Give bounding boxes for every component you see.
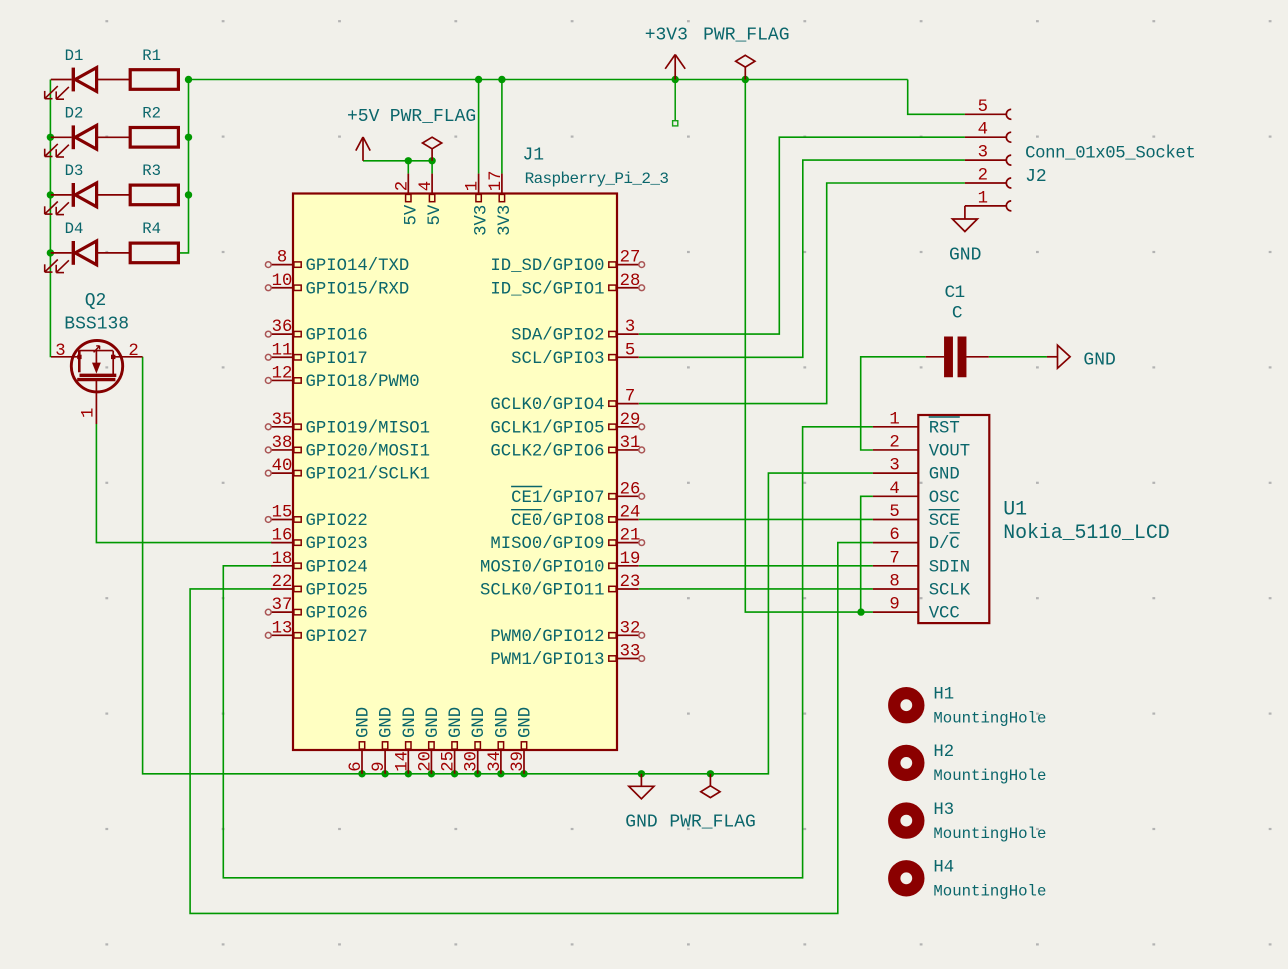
svg-text:3: 3 (889, 457, 899, 476)
J1 pin 28 ID_SC/GPIO1 (490, 272, 644, 300)
J1 pin 15 GPIO22 (265, 503, 367, 531)
junction U1 VCC (857, 608, 864, 615)
svg-text:25: 25 (440, 751, 459, 772)
svg-text:D2: D2 (65, 105, 84, 123)
svg-text:MountingHole: MountingHole (933, 710, 1046, 728)
wire +3V3 dangling stub (673, 80, 678, 126)
J1 pin 9 GND bottom (370, 707, 397, 774)
svg-text:5V: 5V (402, 204, 421, 225)
power symbol +5V (347, 107, 380, 161)
svg-text:8: 8 (889, 572, 899, 591)
mounting hole H2 (894, 743, 1046, 785)
J1 pin 27 ID_SD/GPIO0 (490, 249, 644, 277)
LED D2 (45, 105, 131, 157)
junction GND symbol bottom (638, 770, 645, 777)
svg-text:10: 10 (272, 272, 293, 291)
LED D1 (45, 47, 131, 99)
J2 pin 3 (965, 144, 1012, 166)
svg-text:GND: GND (625, 813, 657, 833)
svg-text:Conn_01x05_Socket: Conn_01x05_Socket (1025, 144, 1195, 163)
svg-text:D3: D3 (65, 162, 84, 180)
svg-text:CE1/GPIO7: CE1/GPIO7 (511, 489, 604, 508)
J1 pin 38 GPIO20/MOSI1 (265, 434, 430, 462)
svg-text:ID_SC/GPIO1: ID_SC/GPIO1 (490, 280, 604, 299)
mounting hole H4 (894, 859, 1046, 901)
junction 3V3 pin 17 (498, 76, 505, 83)
LED D3 (45, 162, 131, 214)
svg-text:SCLK: SCLK (929, 581, 971, 600)
wire +3V3 riser to U1 VCC (745, 80, 873, 613)
J1 pin 2 5V top (393, 174, 421, 226)
svg-text:2: 2 (889, 433, 899, 452)
svg-text:+3V3: +3V3 (645, 26, 688, 46)
U1 pin 1 RST (873, 410, 960, 438)
resistor R2 (130, 105, 178, 148)
J1 pin 24 CE0/GPIO8 (511, 503, 640, 531)
svg-text:Q2: Q2 (85, 291, 107, 311)
svg-text:33: 33 (620, 642, 641, 661)
J1 pin 14 GND bottom (393, 707, 420, 774)
J2 pin 4 (965, 121, 1012, 143)
junction GND pin rail x362 (358, 770, 365, 777)
svg-text:GPIO22: GPIO22 (306, 512, 368, 531)
svg-text:ID_SD/GPIO0: ID_SD/GPIO0 (490, 257, 604, 276)
svg-text:26: 26 (620, 480, 641, 499)
mounting hole H1 (894, 685, 1046, 727)
svg-text:GPIO27: GPIO27 (306, 628, 368, 647)
svg-text:GPIO18/PWM0: GPIO18/PWM0 (306, 373, 420, 392)
svg-text:38: 38 (272, 434, 293, 453)
wire SCL/GPIO3 to J2 pin 3 (639, 160, 965, 357)
svg-text:1: 1 (978, 189, 988, 208)
J1 pin 7 GCLK0/GPIO4 (490, 388, 638, 416)
svg-text:Nokia_5110_LCD: Nokia_5110_LCD (1003, 521, 1169, 544)
capacitor C1 (926, 283, 989, 377)
junction GND pin rail x477 (474, 770, 481, 777)
J1 pin 8 GPIO14/TXD (265, 249, 409, 277)
wire 3V3 pin 1 (478, 80, 480, 174)
svg-text:RST: RST (929, 419, 960, 438)
wire +3V3 top rail (189, 79, 908, 81)
svg-text:BSS138: BSS138 (64, 314, 129, 334)
svg-text:GPIO25: GPIO25 (306, 581, 368, 600)
svg-text:24: 24 (620, 503, 641, 522)
svg-text:MISO0/GPIO9: MISO0/GPIO9 (490, 535, 604, 554)
svg-text:GPIO19/MISO1: GPIO19/MISO1 (306, 419, 430, 438)
svg-text:5: 5 (625, 341, 635, 360)
svg-text:GPIO20/MOSI1: GPIO20/MOSI1 (306, 442, 430, 461)
svg-text:22: 22 (272, 573, 293, 592)
junction R2 output (185, 134, 192, 141)
junction R3 output (185, 191, 192, 198)
svg-text:34: 34 (486, 751, 505, 772)
U1 pin 4 OSC (873, 480, 960, 508)
junction +5V pin 2 (405, 157, 412, 164)
svg-text:30: 30 (463, 751, 482, 772)
svg-text:SDIN: SDIN (929, 558, 970, 577)
J1 pin 3 SDA/GPIO2 (511, 318, 639, 346)
svg-text:21: 21 (620, 527, 641, 546)
svg-text:28: 28 (620, 272, 641, 291)
global label GND at C1 (1047, 345, 1116, 370)
wire C1 to GND label (989, 356, 1047, 358)
svg-text:4: 4 (978, 121, 988, 140)
wire GPIO23 to Q2 source (96, 424, 272, 543)
svg-text:14: 14 (393, 751, 412, 772)
svg-text:H2: H2 (933, 743, 954, 762)
junction GND pin rail x408 (405, 770, 412, 777)
svg-text:29: 29 (620, 411, 641, 430)
J1 pin 22 GPIO25 (271, 573, 368, 601)
J1 pin 40 GPIO21/SCLK1 (265, 457, 430, 485)
svg-text:R4: R4 (142, 220, 161, 238)
svg-text:R1: R1 (142, 47, 161, 65)
wire C1 to U1 VOUT (861, 357, 926, 450)
svg-text:MountingHole: MountingHole (933, 767, 1046, 785)
resistor R3 (130, 162, 178, 205)
U1 pin 3 GND (873, 457, 960, 485)
svg-text:GND: GND (929, 466, 960, 485)
U1 pin 6 D/C (873, 526, 960, 554)
J1 pin 34 GND bottom (486, 707, 513, 774)
wire 3V3 pin 17 (501, 80, 503, 174)
svg-text:PWR_FLAG: PWR_FLAG (390, 107, 476, 127)
svg-text:C: C (952, 304, 963, 324)
wire U1 OSC to VCC (861, 496, 873, 612)
power symbol +3V3 (645, 26, 688, 80)
junction GND pin rail x454 (451, 770, 458, 777)
svg-text:13: 13 (272, 619, 293, 638)
transistor Q2 BSS138 (51, 291, 143, 424)
J1 pin 10 GPIO15/RXD (265, 272, 409, 300)
J1 pin 36 GPIO16 (265, 318, 367, 346)
svg-text:4: 4 (889, 480, 899, 499)
mounting hole H3 (894, 801, 1046, 843)
J1 pin 1 3V3 top (464, 174, 492, 236)
svg-text:J2: J2 (1025, 167, 1047, 187)
svg-text:H3: H3 (933, 801, 954, 820)
svg-text:Raspberry_Pi_2_3: Raspberry_Pi_2_3 (525, 170, 669, 188)
J1 pin 6 GND bottom (347, 707, 374, 774)
svg-text:GND: GND (1083, 350, 1115, 370)
svg-text:GPIO16: GPIO16 (306, 327, 368, 346)
svg-text:31: 31 (620, 434, 641, 453)
junction R1 output (185, 76, 192, 83)
J1 pin 29 GCLK1/GPIO5 (490, 411, 644, 439)
U1 pin 9 VCC (873, 596, 960, 624)
svg-text:GND: GND (447, 707, 466, 738)
wire GND rail (Q2 drain riser, bottom rail, riser to U1 GND) (143, 357, 873, 774)
junction PWR_FLAG top (742, 76, 749, 83)
junction +3V3 symbol (672, 76, 679, 83)
J1 pin 37 GPIO26 (265, 596, 367, 624)
svg-text:GND: GND (355, 707, 374, 738)
svg-text:6: 6 (347, 761, 366, 771)
svg-text:PWM0/GPIO12: PWM0/GPIO12 (490, 628, 604, 647)
svg-text:2: 2 (978, 167, 988, 186)
svg-text:GCLK1/GPIO5: GCLK1/GPIO5 (490, 419, 604, 438)
IC J1 Raspberry_Pi_2_3 body (293, 145, 668, 750)
svg-text:GPIO14/TXD: GPIO14/TXD (306, 257, 410, 276)
wire top rail to J2 pin 5 (908, 80, 965, 115)
wire CE0/GPIO8 to U1 SCE (639, 518, 873, 520)
svg-text:D/C: D/C (929, 535, 960, 554)
svg-text:1: 1 (80, 408, 99, 418)
wire GPIO24 to U1 RST (223, 427, 873, 878)
J1 pin 35 GPIO19/MISO1 (265, 411, 430, 439)
J1 pin 33 PWM1/GPIO13 (490, 642, 644, 670)
IC U1 Nokia_5110_LCD body (918, 415, 1169, 623)
svg-text:7: 7 (889, 549, 899, 568)
junction GND pin rail x385 (381, 770, 388, 777)
svg-text:VCC: VCC (929, 605, 960, 624)
svg-text:1: 1 (889, 410, 899, 429)
svg-text:GPIO26: GPIO26 (306, 605, 368, 624)
svg-text:CE0/GPIO8: CE0/GPIO8 (511, 512, 604, 531)
wire resistor output chain (178, 80, 188, 253)
J1 pin 16 GPIO23 (271, 527, 368, 555)
junction GND pin rail x524 (520, 770, 527, 777)
svg-text:19: 19 (620, 550, 641, 569)
ground symbol J2 pin 1 (949, 206, 981, 266)
svg-text:PWR_FLAG: PWR_FLAG (703, 26, 789, 46)
J1 pin 13 GPIO27 (265, 619, 367, 647)
svg-text:39: 39 (509, 751, 528, 772)
junction GND pin rail x431 (428, 770, 435, 777)
svg-text:18: 18 (272, 550, 293, 569)
svg-text:GND: GND (378, 707, 397, 738)
svg-text:GCLK0/GPIO4: GCLK0/GPIO4 (490, 396, 604, 415)
svg-text:6: 6 (889, 526, 899, 545)
J1 pin 19 MOSI0/GPIO10 (480, 550, 640, 578)
J2 pin 1 (965, 189, 1012, 211)
svg-text:2: 2 (393, 181, 412, 191)
svg-text:35: 35 (272, 411, 293, 430)
J1 pin 25 GND bottom (440, 707, 467, 774)
svg-text:H4: H4 (933, 859, 954, 878)
LED D4 (45, 220, 131, 272)
svg-text:32: 32 (620, 619, 641, 638)
svg-text:SCE: SCE (929, 512, 960, 531)
power flag PWR_FLAG top-left (390, 107, 476, 161)
svg-text:GPIO21/SCLK1: GPIO21/SCLK1 (306, 466, 430, 485)
svg-text:36: 36 (272, 318, 293, 337)
power flag PWR_FLAG bottom (669, 774, 755, 833)
U1 pin 5 SCE (873, 503, 960, 531)
svg-text:J1: J1 (523, 145, 545, 165)
svg-text:GND: GND (401, 707, 420, 738)
svg-text:8: 8 (277, 249, 287, 268)
J1 pin 18 GPIO24 (271, 550, 368, 578)
svg-text:SDA/GPIO2: SDA/GPIO2 (511, 327, 604, 346)
J1 pin 12 GPIO18/PWM0 (265, 364, 419, 392)
J1 pin 30 GND bottom (463, 707, 490, 774)
svg-text:5V: 5V (426, 204, 445, 225)
svg-text:MountingHole: MountingHole (933, 883, 1046, 901)
svg-text:5: 5 (889, 503, 899, 522)
J1 pin 17 3V3 top (487, 170, 515, 235)
J2 pin 5 (965, 98, 1012, 120)
svg-text:9: 9 (370, 761, 389, 771)
svg-text:+5V: +5V (347, 107, 380, 127)
svg-text:2: 2 (128, 342, 138, 361)
svg-text:3: 3 (978, 144, 988, 163)
J1 pin 11 GPIO17 (265, 341, 367, 369)
svg-text:PWM1/GPIO13: PWM1/GPIO13 (490, 651, 604, 670)
wire SDA/GPIO2 to J2 pin 4 (639, 137, 965, 334)
junction D2 cathode (47, 134, 54, 141)
ground symbol bottom rail (625, 774, 657, 833)
svg-text:40: 40 (272, 457, 293, 476)
J1 pin 20 GND bottom (416, 707, 443, 774)
svg-text:GCLK2/GPIO6: GCLK2/GPIO6 (490, 442, 604, 461)
U1 pin 8 SCLK (873, 572, 971, 600)
svg-text:1: 1 (464, 181, 483, 191)
svg-text:5: 5 (978, 98, 988, 117)
svg-text:GPIO17: GPIO17 (306, 350, 368, 369)
svg-text:27: 27 (620, 249, 641, 268)
svg-text:H1: H1 (933, 685, 954, 704)
junction GND pin rail x500 (497, 770, 504, 777)
svg-text:GND: GND (493, 707, 512, 738)
J1 pin 4 5V top (417, 174, 445, 226)
resistor R4 (130, 220, 178, 263)
wire LED cathode chain (49, 80, 51, 358)
wire MOSI0/GPIO10 to U1 SDIN (639, 565, 873, 567)
J1 pin 32 PWM0/GPIO12 (490, 619, 644, 647)
svg-text:3V3: 3V3 (473, 205, 492, 236)
svg-text:3V3: 3V3 (496, 205, 515, 236)
J1 pin 39 GND bottom (509, 707, 536, 774)
J2 pin 2 (965, 167, 1012, 189)
junction 3V3 pin 1 (475, 76, 482, 83)
svg-text:20: 20 (416, 751, 435, 772)
svg-text:3: 3 (55, 342, 65, 361)
svg-text:4: 4 (417, 181, 436, 191)
resistor R1 (130, 47, 178, 89)
svg-text:15: 15 (272, 503, 293, 522)
junction D4 cathode (47, 249, 54, 256)
J1 pin 31 GCLK2/GPIO6 (490, 434, 644, 462)
wire SCLK0/GPIO11 to U1 SCLK (639, 588, 873, 590)
svg-text:VOUT: VOUT (929, 442, 970, 461)
svg-text:GND: GND (424, 707, 443, 738)
junction PWR_FLAG bottom (707, 770, 714, 777)
junction D3 cathode (47, 191, 54, 198)
svg-text:D4: D4 (65, 220, 84, 238)
wire +5V net (363, 161, 432, 174)
svg-text:SCL/GPIO3: SCL/GPIO3 (511, 350, 604, 369)
wire GCLK0/GPIO4 to J2 pin 2 (639, 183, 965, 404)
svg-text:GND: GND (949, 245, 981, 265)
svg-text:MOSI0/GPIO10: MOSI0/GPIO10 (480, 558, 604, 577)
junction +5V pin 4 (428, 157, 435, 164)
wire GPIO25 to U1 D/C (190, 543, 873, 914)
svg-text:9: 9 (889, 596, 899, 615)
power flag PWR_FLAG top-middle (703, 26, 789, 80)
svg-text:GND: GND (470, 707, 489, 738)
svg-text:16: 16 (272, 527, 293, 546)
svg-text:GPIO15/RXD: GPIO15/RXD (306, 280, 410, 299)
svg-text:C1: C1 (945, 283, 965, 303)
svg-text:R2: R2 (142, 105, 161, 123)
svg-text:R3: R3 (142, 162, 161, 180)
svg-text:11: 11 (272, 341, 293, 360)
svg-text:GND: GND (517, 707, 536, 738)
svg-text:12: 12 (272, 364, 293, 383)
U1 pin 7 SDIN (873, 549, 970, 577)
svg-text:3: 3 (625, 318, 635, 337)
svg-text:GPIO23: GPIO23 (306, 535, 368, 554)
U1 pin 2 VOUT (873, 433, 970, 461)
svg-text:D1: D1 (65, 47, 84, 65)
svg-text:GPIO24: GPIO24 (306, 558, 368, 577)
svg-text:PWR_FLAG: PWR_FLAG (669, 813, 755, 833)
J1 pin 21 MISO0/GPIO9 (490, 527, 644, 555)
svg-text:U1: U1 (1003, 498, 1027, 521)
J1 pin 5 SCL/GPIO3 (511, 341, 639, 369)
svg-text:MountingHole: MountingHole (933, 825, 1046, 843)
svg-text:7: 7 (625, 388, 635, 407)
J1 pin 26 CE1/GPIO7 (511, 480, 644, 508)
svg-text:17: 17 (487, 170, 506, 191)
svg-text:37: 37 (272, 596, 293, 615)
svg-text:SCLK0/GPIO11: SCLK0/GPIO11 (480, 581, 604, 600)
svg-text:OSC: OSC (929, 489, 960, 508)
J1 pin 23 SCLK0/GPIO11 (480, 573, 640, 601)
svg-text:23: 23 (620, 573, 641, 592)
connector J2 Conn_01x05_Socket labels (1025, 144, 1195, 187)
